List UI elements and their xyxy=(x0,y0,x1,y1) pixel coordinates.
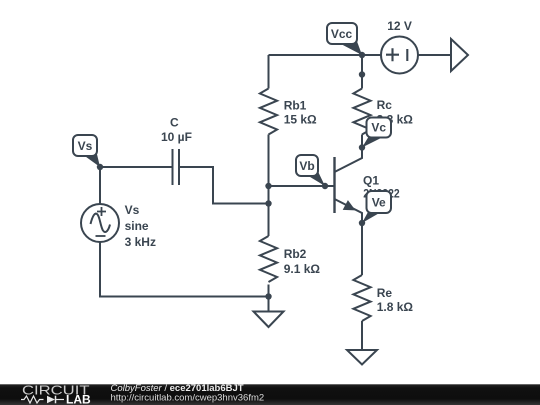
svg-text:Vs: Vs xyxy=(78,139,93,153)
svg-text:Vc: Vc xyxy=(371,120,386,134)
svg-text:3 kHz: 3 kHz xyxy=(125,235,156,249)
svg-text:15 kΩ: 15 kΩ xyxy=(284,113,317,127)
svg-text:http://circuitlab.com/cwep3hnv: http://circuitlab.com/cwep3hnv36fm2 xyxy=(111,392,265,403)
svg-text:Q1: Q1 xyxy=(363,174,379,188)
svg-text:Re: Re xyxy=(377,286,393,300)
svg-text:10 µF: 10 µF xyxy=(161,130,192,144)
svg-text:9.1 kΩ: 9.1 kΩ xyxy=(284,262,321,276)
svg-text:Rb1: Rb1 xyxy=(284,99,307,113)
svg-text:Rc: Rc xyxy=(377,98,393,112)
svg-text:Ve: Ve xyxy=(372,195,386,209)
svg-text:Vcc: Vcc xyxy=(331,27,353,41)
svg-text:C: C xyxy=(170,116,179,130)
svg-text:sine: sine xyxy=(125,219,149,233)
svg-text:1.8 kΩ: 1.8 kΩ xyxy=(377,300,414,314)
svg-text:Vs: Vs xyxy=(125,203,140,217)
svg-text:Vb: Vb xyxy=(299,159,314,173)
svg-text:LAB: LAB xyxy=(66,395,91,405)
svg-text:Rb2: Rb2 xyxy=(284,247,307,261)
svg-text:12 V: 12 V xyxy=(387,19,412,33)
